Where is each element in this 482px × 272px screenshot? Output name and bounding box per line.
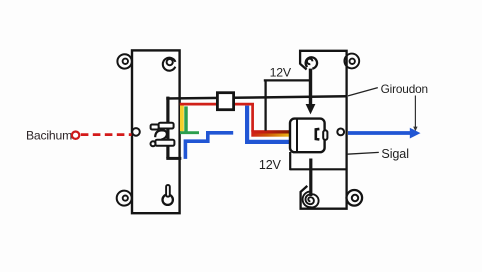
wire: black 12V branch into bracket M2 (264, 79, 312, 81)
leader line to Sigal (347, 152, 379, 154)
pointer: Giroudon down to signal wire (413, 96, 417, 132)
svg-text:Bacihum: Bacihum (26, 129, 72, 143)
screw ear bottom-right of M2 (347, 190, 363, 206)
wire: red vertical drop at node B (251, 103, 254, 131)
wire: black bottom jumper out of bracket M1 (166, 157, 181, 160)
M2 top tab chamfer (300, 64, 306, 70)
leader line to Giroudon (348, 88, 378, 96)
svg-text:12V: 12V (259, 158, 282, 172)
solenoid K1 bracket mark (316, 129, 320, 140)
screw hole top-left of M1 (117, 54, 131, 68)
svg-text:Giroudon: Giroudon (381, 82, 428, 96)
ground screw spiral bottom-left of M2 (303, 192, 319, 208)
wire: black branch down to band at node B (264, 80, 266, 131)
solenoid K1 right nub (323, 130, 327, 140)
wire: red-to-dark-red band into solenoid K1 (top stripe) (251, 130, 290, 133)
arrow: blue signal output (348, 128, 421, 139)
indicator hole on M2 (337, 129, 344, 136)
wire: green vertical stub (184, 106, 188, 133)
battery terminal ring (72, 132, 79, 139)
wire: red dashed battery lead (81, 133, 132, 136)
fuse F1 on black/red feed (217, 93, 233, 110)
connector scribble inside M1 (151, 123, 175, 147)
screw spiral top-right of M1 (163, 58, 176, 71)
wire: blue stepped stub from bottom jumper (185, 133, 233, 159)
wire: orange-to-yellow band into solenoid K1 (bottom stripe) (251, 134, 290, 137)
keyhole slot at bottom of M1 (163, 185, 173, 205)
screw spiral top-left of M2 (306, 57, 317, 68)
wire: black vertical riser inside bracket M1 (166, 97, 169, 159)
module bracket M1 (left mounting plate) (132, 50, 180, 213)
wire: green horizontal stub (180, 131, 199, 134)
wire: yellow stub inside bracket M1 (180, 105, 184, 132)
svg-text:12V: 12V (270, 66, 292, 80)
terminal circle on M1 left edge (battery input node) (132, 128, 140, 136)
M2 bottom tab top edge (290, 168, 346, 170)
wire: red 12V feed from bracket M1 to node B (180, 103, 254, 106)
arrow: 12V feed down into M2 (306, 69, 316, 115)
M2 solenoid skirt edge (289, 152, 291, 170)
wire: blue lead from fuse node down to solenoid K1 (247, 106, 290, 142)
svg-text:Sigal: Sigal (381, 147, 409, 161)
wire: black ground lead to screw (309, 159, 312, 197)
wire: black top feed from bracket M1 to bracket M2 (166, 96, 346, 98)
solenoid K1 body (290, 119, 325, 153)
screw hole bottom-left of M1 (117, 191, 132, 206)
screw ear top-right of M2 (344, 54, 359, 69)
solenoid K1 inner edge (296, 119, 298, 152)
module bracket M2 (right mounting plate) outline (300, 51, 347, 209)
